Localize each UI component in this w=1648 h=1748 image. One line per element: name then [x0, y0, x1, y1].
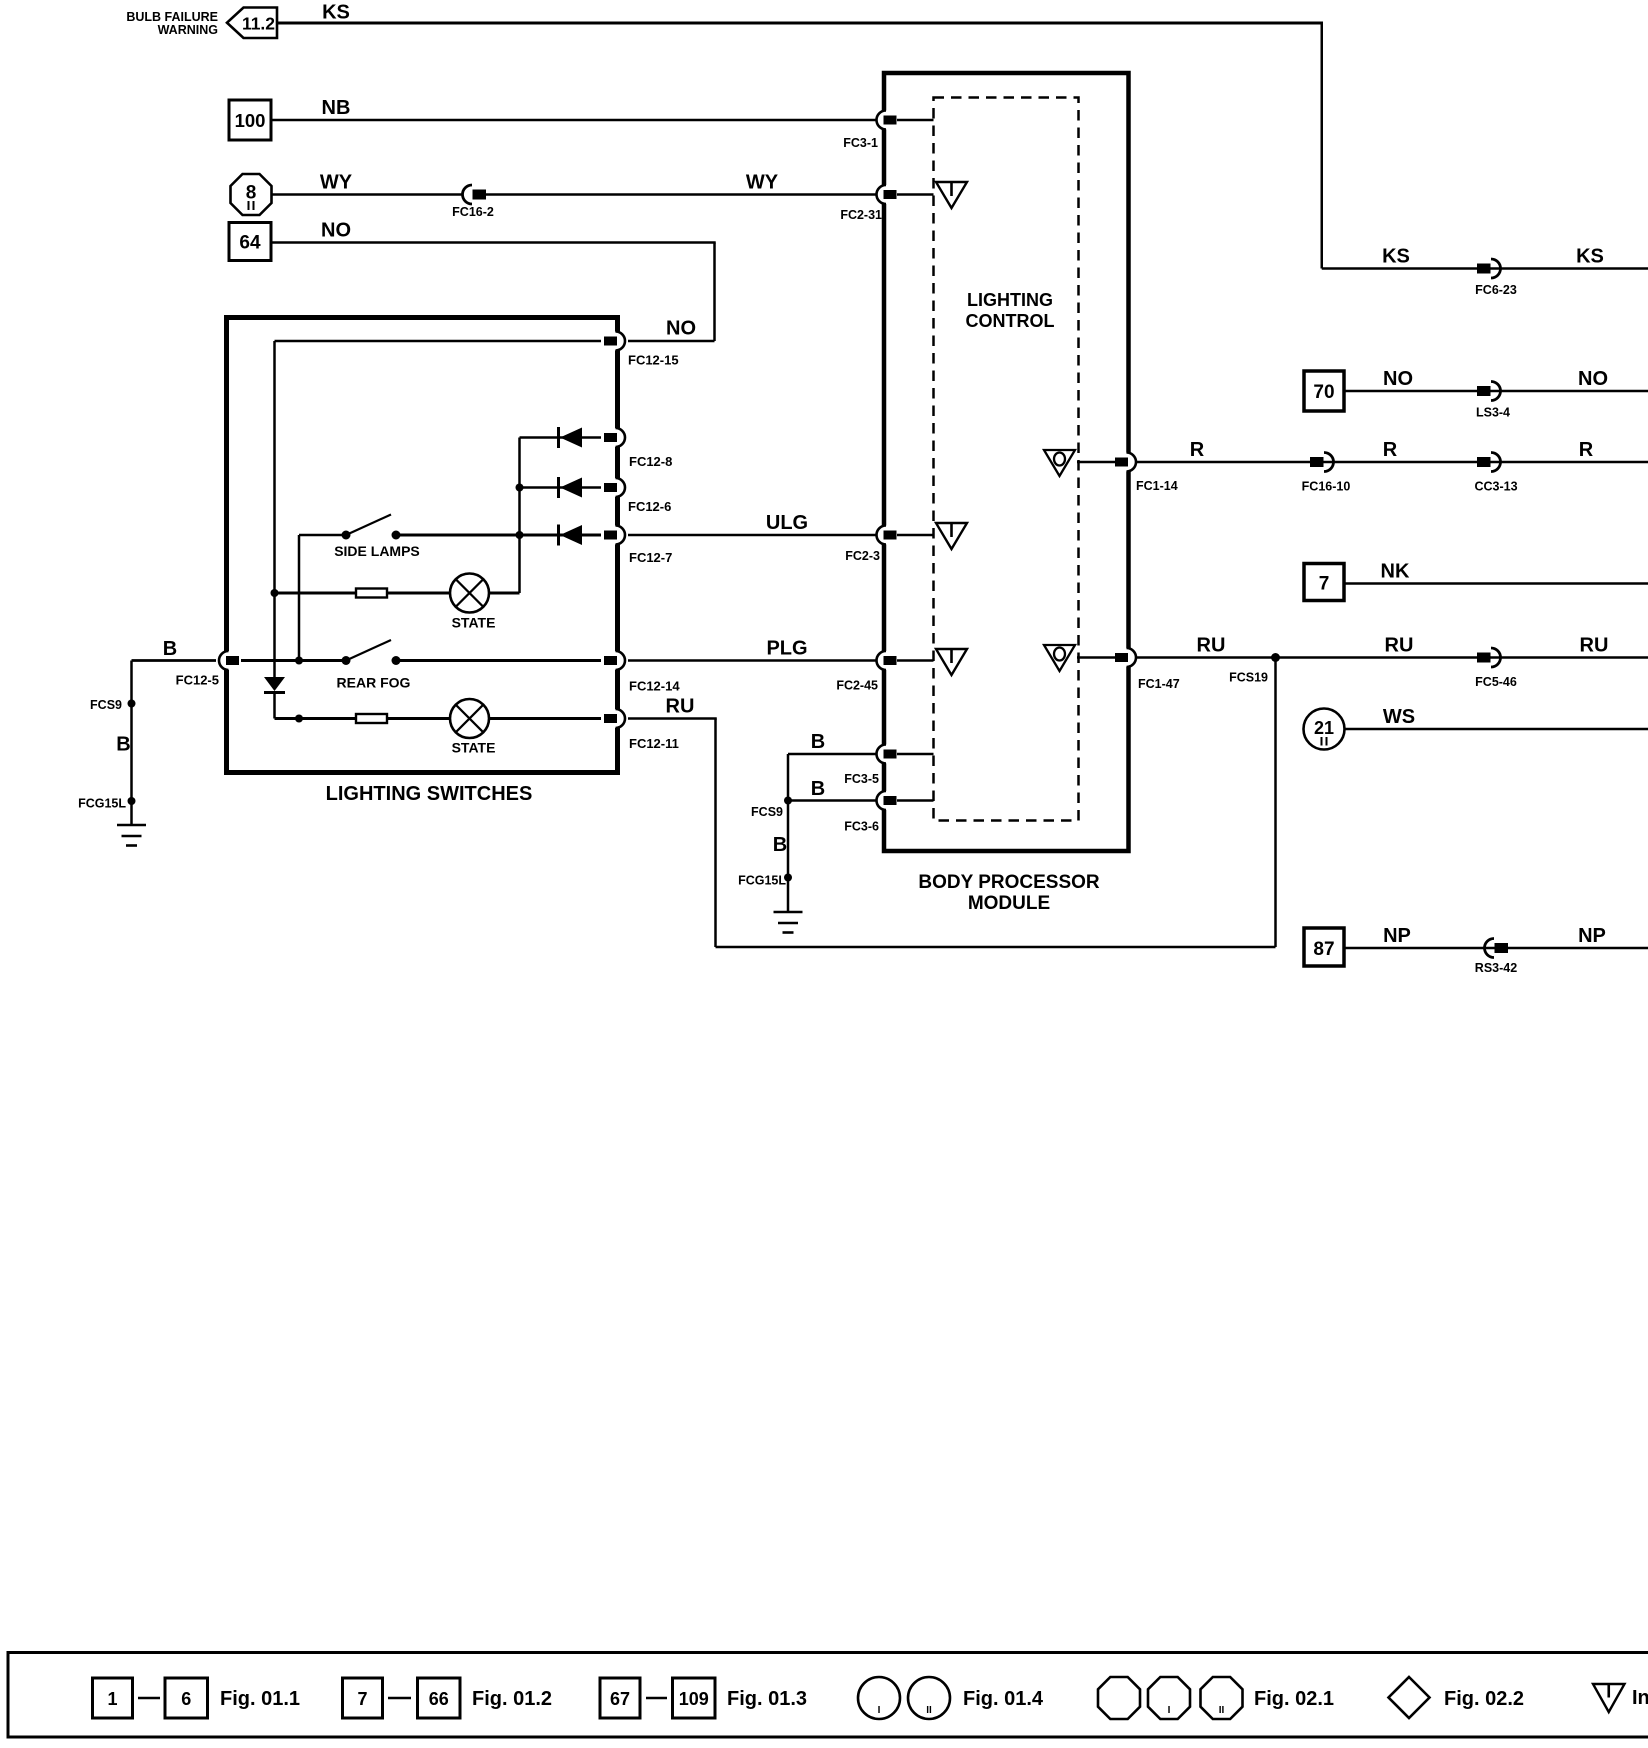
svg-text:B: B: [116, 734, 130, 756]
svg-text:NB: NB: [322, 97, 351, 119]
svg-text:NO: NO: [321, 220, 351, 242]
svg-text:70: 70: [1313, 382, 1334, 403]
svg-text:RU: RU: [1580, 635, 1609, 657]
svg-text:FC1-47: FC1-47: [1138, 677, 1180, 691]
svg-text:STATE: STATE: [452, 615, 496, 631]
svg-text:PLG: PLG: [766, 638, 807, 660]
svg-text:B: B: [811, 778, 825, 800]
svg-text:R: R: [1383, 439, 1398, 461]
svg-text:FC12-5: FC12-5: [176, 673, 219, 688]
svg-text:STATE: STATE: [452, 740, 496, 756]
svg-text:FCS19: FCS19: [1229, 671, 1268, 685]
svg-text:R: R: [1579, 439, 1594, 461]
svg-text:FC2-45: FC2-45: [836, 679, 878, 693]
svg-text:LIGHTING SWITCHES: LIGHTING SWITCHES: [326, 783, 533, 805]
svg-text:CONTROL: CONTROL: [966, 311, 1055, 331]
svg-text:FCS9: FCS9: [751, 805, 783, 819]
svg-text:LIGHTING: LIGHTING: [967, 290, 1053, 310]
svg-text:NP: NP: [1383, 925, 1411, 947]
svg-text:6: 6: [181, 1689, 191, 1709]
svg-text:7: 7: [357, 1689, 367, 1709]
svg-text:RU: RU: [666, 696, 695, 718]
svg-text:NO: NO: [1578, 368, 1608, 390]
svg-text:8: 8: [246, 183, 257, 204]
svg-text:FCG15L: FCG15L: [738, 874, 786, 888]
svg-text:1: 1: [107, 1689, 117, 1709]
svg-text:Fig. 01.1: Fig. 01.1: [220, 1688, 300, 1710]
svg-text:Fig. 01.2: Fig. 01.2: [472, 1688, 552, 1710]
svg-text:I: I: [878, 1705, 881, 1716]
svg-text:FC12-8: FC12-8: [629, 454, 672, 469]
svg-text:FC12-14: FC12-14: [629, 679, 680, 694]
svg-text:II: II: [1219, 1705, 1225, 1716]
svg-text:FC16-2: FC16-2: [452, 205, 494, 219]
svg-text:67: 67: [610, 1689, 630, 1709]
svg-text:B: B: [163, 638, 177, 660]
svg-text:WARNING: WARNING: [158, 23, 218, 37]
svg-text:FC6-23: FC6-23: [1475, 283, 1517, 297]
svg-text:Fig. 01.4: Fig. 01.4: [963, 1688, 1044, 1710]
svg-text:64: 64: [239, 233, 261, 254]
svg-text:NP: NP: [1578, 925, 1606, 947]
svg-text:BODY PROCESSOR: BODY PROCESSOR: [918, 872, 1100, 893]
svg-text:I: I: [1168, 1705, 1171, 1716]
svg-text:NO: NO: [666, 318, 696, 340]
svg-text:FC3-1: FC3-1: [843, 136, 878, 150]
svg-text:NK: NK: [1381, 561, 1410, 583]
svg-text:WY: WY: [320, 172, 353, 194]
svg-text:FC12-7: FC12-7: [629, 550, 672, 565]
svg-text:WY: WY: [746, 172, 779, 194]
svg-text:R: R: [1190, 439, 1205, 461]
svg-text:MODULE: MODULE: [968, 893, 1050, 914]
svg-text:7: 7: [1319, 574, 1330, 595]
svg-text:LS3-4: LS3-4: [1476, 406, 1510, 420]
svg-text:FC12-15: FC12-15: [628, 353, 679, 368]
svg-text:100: 100: [235, 110, 266, 131]
svg-text:FC2-31: FC2-31: [840, 208, 882, 222]
svg-text:SIDE LAMPS: SIDE LAMPS: [334, 543, 420, 559]
svg-text:ULG: ULG: [766, 512, 808, 534]
svg-text:WS: WS: [1383, 706, 1415, 728]
svg-text:FCG15L: FCG15L: [78, 797, 126, 811]
svg-text:KS: KS: [1576, 246, 1604, 268]
svg-text:11.2: 11.2: [242, 14, 275, 34]
svg-text:BULB FAILURE: BULB FAILURE: [126, 10, 218, 24]
svg-text:FC3-5: FC3-5: [844, 772, 879, 786]
svg-text:RU: RU: [1385, 635, 1414, 657]
svg-text:In: In: [1632, 1687, 1648, 1709]
svg-text:FC5-46: FC5-46: [1475, 675, 1517, 689]
svg-text:RS3-42: RS3-42: [1475, 961, 1517, 975]
svg-text:FC2-3: FC2-3: [845, 549, 880, 563]
svg-text:FC3-6: FC3-6: [844, 820, 879, 834]
svg-text:FC12-11: FC12-11: [629, 736, 679, 751]
svg-text:FC16-10: FC16-10: [1302, 480, 1351, 494]
svg-text:KS: KS: [1382, 246, 1410, 268]
svg-text:II: II: [926, 1705, 932, 1716]
svg-text:FCS9: FCS9: [90, 698, 122, 712]
svg-text:21: 21: [1314, 718, 1334, 738]
svg-text:RU: RU: [1197, 635, 1226, 657]
svg-text:B: B: [811, 731, 825, 753]
svg-text:CC3-13: CC3-13: [1474, 480, 1517, 494]
svg-text:KS: KS: [322, 2, 350, 24]
svg-text:Fig. 02.2: Fig. 02.2: [1444, 1688, 1524, 1710]
svg-text:FC12-6: FC12-6: [628, 499, 671, 514]
svg-text:66: 66: [429, 1689, 449, 1709]
svg-text:B: B: [773, 834, 787, 856]
svg-text:FC1-14: FC1-14: [1136, 479, 1178, 493]
svg-text:REAR FOG: REAR FOG: [337, 675, 411, 691]
svg-text:Fig. 01.3: Fig. 01.3: [727, 1688, 807, 1710]
svg-text:Fig. 02.1: Fig. 02.1: [1254, 1688, 1334, 1710]
svg-text:NO: NO: [1383, 368, 1413, 390]
svg-text:87: 87: [1313, 939, 1334, 960]
svg-text:109: 109: [679, 1689, 709, 1709]
